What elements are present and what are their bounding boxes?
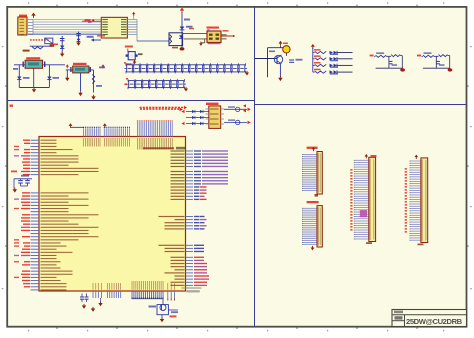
svg-text:25DW@CU2DRB: 25DW@CU2DRB	[406, 317, 463, 326]
